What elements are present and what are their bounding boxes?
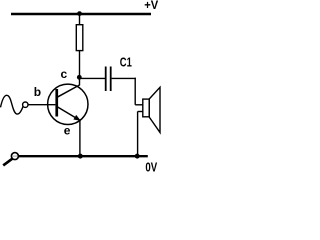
svg-text:+V: +V xyxy=(144,0,158,12)
wire stub to speaker top terminal xyxy=(135,104,143,106)
transistor Q1 emitter line xyxy=(57,107,80,121)
capacitor C1 left plate xyxy=(105,67,107,92)
node collector junction xyxy=(77,75,82,80)
faint rail showing through terminal circle xyxy=(12,155,17,157)
wire corner down to speaker top xyxy=(134,78,136,105)
wire emitter vertical xyxy=(79,121,81,157)
capacitor C1 right plate xyxy=(110,67,112,92)
speaker LS1 box xyxy=(143,99,149,117)
svg-text:0V: 0V xyxy=(145,159,157,172)
+V supply rail xyxy=(11,13,151,15)
input terminal J1 tail xyxy=(3,159,12,166)
resistor R1 xyxy=(76,25,83,51)
wire collector vertical xyxy=(79,77,81,85)
wire stub from speaker bottom terminal xyxy=(138,111,143,113)
wire rail to resistor xyxy=(79,14,81,25)
transistor Q1 body circle xyxy=(48,84,88,124)
svg-text:c: c xyxy=(61,67,68,81)
transistor Q1 emitter arrow xyxy=(73,115,81,121)
wire node to capacitor xyxy=(80,77,106,79)
svg-text:C1: C1 xyxy=(120,54,132,69)
transistor Q1 base bar xyxy=(55,89,58,117)
input terminal J1 circle xyxy=(11,153,18,160)
node speaker-0V junction xyxy=(135,154,140,159)
svg-text:e: e xyxy=(64,124,71,138)
node top junction xyxy=(77,11,82,16)
wire b terminal to base xyxy=(28,104,55,106)
transistor Q1 collector line xyxy=(57,85,80,97)
node emitter-0V junction xyxy=(78,154,83,159)
terminal b circle xyxy=(23,102,28,107)
speaker LS1 cone xyxy=(149,87,160,132)
wire resistor to collector node xyxy=(79,51,81,79)
wire speaker bottom down to 0V xyxy=(137,112,139,157)
0V rail xyxy=(19,155,148,157)
svg-text:b: b xyxy=(34,85,41,99)
signal source sine wave xyxy=(1,95,24,114)
wire capacitor to corner xyxy=(112,77,136,79)
